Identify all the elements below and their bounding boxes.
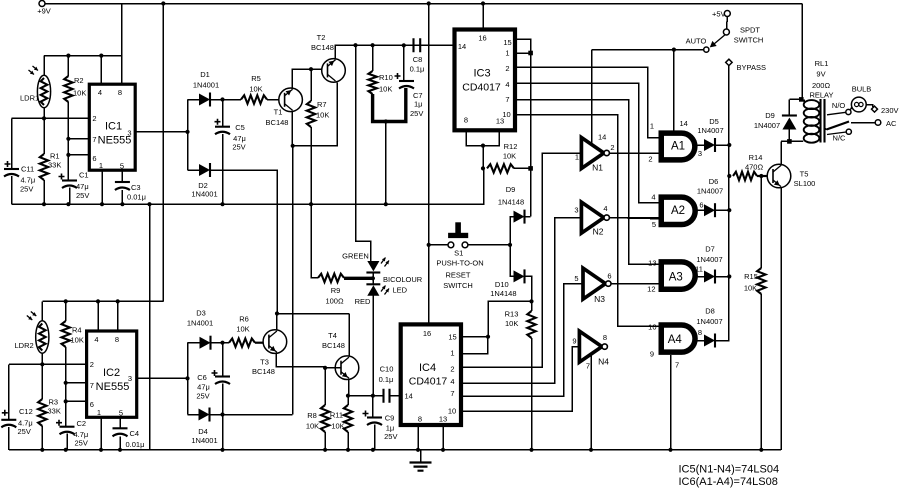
node junction A4 pin7/rail: [668, 448, 672, 452]
wire junction top rail x=163: [161, 1, 165, 5]
svg-text:7: 7: [586, 362, 590, 371]
transistor T3 BC148: [263, 330, 287, 354]
wire column x=163 from top rail: [162, 4, 164, 302]
diode D7 1N4007: [704, 271, 715, 283]
svg-text:C8: C8: [413, 55, 423, 64]
svg-text:A4: A4: [668, 334, 683, 346]
node +5V terminal: [724, 11, 730, 17]
resistor R2 10K: [64, 76, 72, 102]
wire bottom ground rail: [9, 449, 781, 451]
wire C3 bottom lead: [121, 190, 123, 204]
svg-text:R2: R2: [74, 76, 84, 85]
svg-text:2: 2: [610, 143, 614, 152]
wire diode column D1-D2: [187, 100, 189, 171]
wire T4 collector: [348, 314, 350, 357]
switch SPDT pivot: [726, 17, 729, 30]
svg-text:9: 9: [572, 337, 576, 346]
relay N/O contact: [846, 109, 851, 114]
wire junction feeder R2: [66, 54, 70, 58]
wire T2 collector: [335, 45, 456, 59]
svg-text:T4: T4: [328, 331, 337, 340]
node junction pin13/rail: [441, 448, 445, 452]
svg-text:4: 4: [94, 335, 98, 344]
svg-text:2: 2: [648, 155, 652, 164]
capacitor C7 1u: [399, 80, 414, 82]
svg-text:C3: C3: [131, 183, 141, 192]
node junction T3/T4 collectors: [275, 311, 279, 315]
svg-text:CD4017: CD4017: [462, 82, 501, 94]
node junction R2/pin7: [66, 137, 70, 141]
wire IC2 pin6 wire: [66, 400, 87, 402]
wire R11 bottom lead: [347, 432, 349, 450]
wire emitter join: [293, 83, 337, 146]
svg-text:C10: C10: [380, 365, 394, 374]
diode D9 1N4148: [514, 211, 525, 223]
wire N2 output: [610, 217, 659, 219]
wire IC3 pin4 to A2: [515, 83, 659, 203]
node BYPASS terminal: [726, 59, 732, 65]
wire D10 anode route: [510, 245, 514, 277]
svg-text:16: 16: [423, 329, 431, 338]
wire D10 cathode route: [525, 276, 532, 301]
svg-text:25V: 25V: [196, 392, 209, 401]
node AC terminal: [851, 122, 875, 124]
resistor R4 10K: [62, 321, 70, 347]
node junction bracket: [384, 119, 388, 123]
wire C10 to IC4 pin14: [390, 395, 401, 397]
node +9V supply terminal: [39, 1, 45, 7]
svg-text:7: 7: [505, 95, 509, 104]
svg-text:R1: R1: [50, 152, 60, 161]
diode D3 1N4001: [200, 337, 211, 349]
svg-text:C6: C6: [197, 373, 207, 382]
node junction pin15/pin1: [528, 51, 533, 56]
transistor T2 BC148: [322, 59, 346, 83]
svg-text:IC5(N1-N4)=74LS04: IC5(N1-N4)=74LS04: [679, 464, 780, 476]
wire A4 output: [698, 340, 705, 342]
svg-text:10K: 10K: [236, 325, 249, 334]
svg-text:5: 5: [119, 409, 123, 418]
svg-text:10K: 10K: [505, 319, 518, 328]
svg-text:A2: A2: [671, 205, 685, 217]
IC2 pin8 lead: [117, 301, 119, 331]
wire R2 bottom to pin7: [67, 102, 69, 139]
svg-text:3: 3: [698, 149, 702, 158]
node junction N4 pin7/rail: [589, 448, 593, 452]
svg-text:5: 5: [120, 162, 124, 171]
svg-text:D9: D9: [765, 111, 775, 120]
svg-text:4: 4: [98, 88, 102, 97]
wire IC4 pin2 to N1: [461, 153, 581, 367]
wire R8 top lead: [324, 368, 326, 405]
wire D6 cathode: [715, 209, 729, 211]
svg-text:10K: 10K: [744, 284, 757, 293]
capacitor C2 4.7u: [60, 426, 75, 428]
wire junction feeder pin4: [99, 54, 103, 58]
diode D10 1N4148: [514, 270, 525, 282]
node junction pin1b/rail: [99, 448, 103, 452]
svg-text:6: 6: [90, 400, 94, 409]
node junction pin8/rail: [416, 448, 420, 452]
wire diode column D3-D4: [187, 343, 189, 415]
svg-text:200Ω: 200Ω: [812, 81, 831, 90]
AND gate A1 74LS08: [659, 133, 695, 160]
wire R2 col pin7 to pin6: [67, 139, 69, 155]
capacitor C11 4.7u: [4, 168, 19, 170]
svg-text:D1: D1: [200, 70, 210, 79]
wire IC4 pin10 to N4: [461, 347, 579, 411]
svg-text:AUTO: AUTO: [686, 37, 707, 46]
svg-text:47μ: 47μ: [76, 182, 89, 191]
wire R6 to T3 base: [255, 342, 269, 344]
wire IC3 pin10 to A4: [515, 115, 659, 327]
svg-text:10K: 10K: [379, 85, 392, 94]
svg-text:0.01μ: 0.01μ: [126, 440, 145, 449]
LDR LDR2: [36, 321, 49, 354]
wire green LED column: [356, 45, 371, 261]
wire R7 bottom lead: [310, 127, 312, 204]
wire IC2 pin2 wire: [9, 363, 87, 365]
svg-text:25V: 25V: [384, 432, 397, 441]
capacitor C9 1u: [367, 416, 382, 418]
wire C12 top lead: [8, 364, 10, 420]
node junction relay top: [799, 97, 804, 102]
node junction LDR1/R1/pin2: [42, 116, 46, 120]
svg-text:+9V: +9V: [37, 7, 51, 16]
wire upper ground rail: [12, 168, 484, 204]
svg-text:25V: 25V: [20, 185, 33, 194]
node junction R12/reset column: [528, 166, 533, 171]
svg-text:C5: C5: [235, 123, 245, 132]
svg-text:10K: 10K: [316, 111, 329, 120]
node junction rail/R10: [371, 43, 375, 47]
wire C6 bottom lead: [222, 384, 224, 450]
resistor R3 33K: [38, 399, 46, 426]
wire C6 top lead: [222, 343, 224, 377]
wire IC3 pin1 route: [515, 52, 531, 54]
diode D5 1N4007: [704, 139, 715, 151]
svg-text:T2: T2: [317, 33, 326, 42]
diode D6 1N4007: [704, 204, 715, 216]
node junction C3/ground: [120, 202, 124, 206]
svg-text:15: 15: [503, 38, 511, 47]
wire bracket to ground rail: [385, 122, 387, 205]
node junction T4 emitter: [346, 394, 350, 398]
svg-text:13: 13: [496, 117, 504, 126]
svg-text:T3: T3: [260, 358, 269, 367]
capacitor C6 47u: [215, 375, 230, 377]
bulb lamp: [851, 97, 866, 112]
node junction rail x=149.5: [147, 202, 151, 206]
svg-text:SPDT: SPDT: [740, 26, 760, 35]
svg-text:C12: C12: [19, 407, 33, 416]
svg-text:+5V: +5V: [712, 10, 726, 19]
svg-text:RED: RED: [355, 297, 371, 306]
wire relay feed: [801, 4, 803, 100]
capacitor C5 47u col: [222, 100, 224, 127]
wire C4 bottom lead: [119, 436, 121, 450]
wire IC4 pin4 to N2: [461, 218, 581, 384]
transistor T4 BC148: [335, 356, 359, 380]
capacitor C4 0.01u: [113, 427, 128, 429]
node junction feeder R4: [64, 299, 68, 303]
wire N1 pin14 lead: [591, 50, 593, 146]
wire C11 bottom lead: [11, 176, 13, 204]
wire S1 left lead: [429, 244, 448, 246]
wire R5 to T1 base: [267, 99, 285, 101]
svg-text:8: 8: [603, 333, 607, 342]
LDR LDR1: [37, 75, 50, 108]
wire R13 bottom lead: [531, 338, 533, 450]
svg-text:D4: D4: [198, 427, 208, 436]
svg-text:4.7μ: 4.7μ: [21, 176, 36, 185]
wire R1 bottom lead: [43, 180, 45, 204]
wire column x=149.5 down: [149, 204, 151, 450]
svg-text:C9: C9: [385, 414, 395, 423]
svg-text:N3: N3: [594, 294, 605, 304]
svg-text:C2: C2: [77, 419, 87, 428]
svg-text:9: 9: [650, 350, 654, 359]
resistor R5 10K: [241, 95, 267, 103]
node junction D6/bypass: [727, 208, 731, 212]
svg-text:IC4: IC4: [419, 362, 436, 374]
svg-text:NE555: NE555: [98, 135, 132, 147]
node junction R13/rail: [529, 448, 533, 452]
svg-text:BC148: BC148: [252, 367, 275, 376]
wire T5 emitter to rail: [780, 187, 782, 450]
diode D2 1N4001: [199, 164, 210, 176]
wire bulb to 230V: [866, 105, 873, 108]
svg-text:D9: D9: [506, 185, 516, 194]
svg-text:10K: 10K: [71, 336, 84, 345]
wire reset column upper: [530, 53, 532, 217]
wire D2 anode lead: [188, 169, 200, 171]
svg-text:GREEN: GREEN: [342, 252, 369, 261]
svg-text:C4: C4: [130, 429, 140, 438]
node junction R3/rail: [40, 448, 44, 452]
resistor R9 100: [318, 274, 344, 282]
wire R4 top lead: [65, 301, 67, 321]
svg-text:16: 16: [478, 34, 486, 43]
wire R1 top lead: [43, 118, 45, 154]
wire A4 pin7 ground lead: [670, 355, 672, 450]
switch S1 push-to-on: [448, 242, 454, 248]
resistor R7 10K: [310, 69, 312, 101]
wire T1 emitter lead: [291, 111, 293, 146]
relay pole arm: [827, 122, 850, 130]
svg-text:8: 8: [115, 335, 119, 344]
wire N/O to bulb: [850, 107, 853, 111]
wire R9 feed: [311, 204, 318, 278]
wire C9 top lead: [372, 396, 374, 418]
wire +9V column x=429: [428, 4, 430, 325]
node junction R12 left: [481, 166, 485, 170]
svg-text:2: 2: [92, 114, 96, 123]
node junction pin3b: [185, 376, 189, 380]
svg-text:230V: 230V: [881, 106, 899, 115]
svg-text:4: 4: [450, 377, 454, 386]
svg-text:N4: N4: [598, 357, 609, 367]
resistor R15 10K: [757, 268, 765, 294]
svg-text:0.01μ: 0.01μ: [127, 193, 146, 202]
wire R2 top lead: [67, 56, 69, 76]
wire N3 output: [611, 283, 658, 285]
diode D8 1N4007: [704, 335, 715, 347]
wire R4 bottom lead: [65, 347, 67, 383]
IC1 pin5 lead: [121, 170, 123, 182]
resistor R1 33K: [40, 154, 48, 180]
wire D8 cathode to bypass column: [715, 340, 729, 342]
diode D4 1N4001: [199, 409, 210, 421]
resistor R6 10K: [229, 339, 255, 347]
svg-text:13: 13: [439, 415, 447, 424]
wire R15 top lead: [760, 176, 762, 268]
wire IC4 pin15 lead: [461, 336, 488, 338]
wire IC1 pin6 wire: [68, 154, 89, 156]
svg-text:25V: 25V: [18, 427, 31, 436]
svg-text:5: 5: [652, 220, 656, 229]
wire A1 output: [698, 144, 705, 146]
wire D9 anode route: [510, 217, 514, 245]
wire D7 cathode: [715, 276, 729, 278]
relay N/C contact: [846, 129, 851, 134]
node junction C7/C8: [402, 43, 406, 47]
wire +9V drop to IC1 feeder: [121, 4, 123, 56]
svg-text:8: 8: [118, 88, 122, 97]
wire N4 pin7 ground lead: [590, 355, 592, 450]
wire IC1 pin2 wire: [12, 117, 90, 119]
svg-text:R7: R7: [317, 100, 327, 109]
svg-text:7: 7: [450, 389, 454, 398]
node junction pin1/ground: [100, 202, 104, 206]
svg-text:1: 1: [97, 408, 101, 417]
svg-text:100Ω: 100Ω: [325, 297, 344, 306]
node 230V terminal: [872, 106, 878, 112]
node junction IC4 pin15/1: [486, 335, 490, 339]
node junction C9/rail: [371, 448, 375, 452]
svg-text:8: 8: [418, 415, 422, 424]
svg-text:N/O: N/O: [832, 101, 846, 110]
wire +5V rail: [592, 49, 704, 51]
svg-text:7: 7: [90, 381, 94, 390]
svg-text:SWITCH: SWITCH: [734, 36, 764, 45]
svg-text:13: 13: [648, 259, 656, 268]
svg-text:25V: 25V: [232, 143, 245, 152]
svg-text:2: 2: [90, 360, 94, 369]
wire R8 bottom lead: [324, 432, 326, 450]
switch S1 left junction: [427, 243, 431, 247]
node junction R14/R15: [759, 174, 763, 178]
svg-text:NE555: NE555: [96, 381, 130, 393]
svg-text:3: 3: [574, 206, 578, 215]
wire IC2 pin7 wire: [66, 382, 87, 384]
node junction C2/rail: [64, 448, 68, 452]
svg-text:1μ: 1μ: [414, 100, 423, 109]
node junction C4/rail: [118, 448, 122, 452]
wire IC4 pin7 to N3: [461, 284, 583, 397]
svg-text:25V: 25V: [76, 191, 89, 200]
node junction D7/bypass: [727, 274, 731, 278]
svg-text:D8: D8: [705, 307, 715, 316]
resistor R11 10K: [344, 405, 352, 432]
svg-text:6: 6: [607, 272, 611, 281]
svg-text:1: 1: [99, 161, 103, 170]
wire lower supply feeder: [42, 300, 163, 302]
svg-text:14: 14: [598, 133, 606, 142]
transistor T5 SL100: [767, 164, 791, 188]
svg-text:BC148: BC148: [322, 341, 345, 350]
wire C1 bottom lead: [69, 188, 71, 205]
svg-text:5: 5: [574, 274, 578, 283]
svg-text:BULB: BULB: [852, 85, 872, 94]
svg-text:4: 4: [603, 204, 607, 213]
LED red: [366, 283, 380, 285]
svg-text:A1: A1: [671, 141, 685, 153]
node junction feeder pin8b: [116, 299, 120, 303]
svg-text:D7: D7: [705, 245, 715, 254]
svg-text:PUSH-TO-ON: PUSH-TO-ON: [436, 259, 483, 268]
svg-text:0.1μ: 0.1μ: [379, 375, 394, 384]
svg-text:D10: D10: [495, 280, 509, 289]
node junction D1/C5/R5: [220, 97, 224, 101]
svg-text:SWITCH: SWITCH: [443, 281, 473, 290]
svg-text:D5: D5: [709, 117, 719, 126]
wire IC4 pin8 lead: [417, 425, 419, 450]
svg-text:4: 4: [505, 80, 509, 89]
node junction S1/D9-D10: [508, 243, 512, 247]
wire A2 pin5 input: [610, 218, 659, 219]
wire IC3 pin7 to A3: [515, 100, 659, 265]
svg-text:10: 10: [448, 407, 456, 416]
wire D2 cathode to T3/T4 collectors: [210, 170, 277, 314]
svg-text:33K: 33K: [48, 161, 61, 170]
wire C12 bottom lead: [8, 427, 10, 450]
capacitor C3 0.01u: [115, 181, 130, 183]
wire C7 top lead: [403, 46, 405, 81]
svg-text:4: 4: [651, 193, 655, 202]
resistor R14 470: [733, 172, 757, 180]
svg-text:1N4007: 1N4007: [696, 255, 722, 264]
svg-text:IC3: IC3: [473, 68, 490, 80]
svg-text:R5: R5: [251, 74, 261, 83]
svg-text:R8: R8: [307, 411, 317, 420]
svg-text:10K: 10K: [503, 152, 516, 161]
wire D9 cathode: [525, 216, 531, 218]
svg-text:RL1: RL1: [815, 59, 829, 68]
diode D9 1N4007 relay: [788, 99, 790, 116]
svg-text:LDR1: LDR1: [20, 94, 39, 103]
wire N1 output: [610, 152, 659, 154]
svg-text:R14: R14: [749, 153, 763, 162]
wire bypass column: [728, 65, 730, 340]
node junction R1/ground rail: [42, 202, 46, 206]
svg-text:IC2: IC2: [103, 367, 120, 379]
svg-text:A3: A3: [669, 272, 683, 284]
wire LDR1 to junction: [43, 107, 45, 118]
AND gate A2 74LS08: [659, 197, 696, 224]
svg-text:RESET: RESET: [445, 271, 470, 280]
wire IC1 pin7 wire: [68, 138, 89, 140]
wire R4 col to pin6: [65, 383, 67, 402]
node junction R11/rail: [346, 448, 350, 452]
wire D1 cathode lead: [210, 99, 241, 101]
IC2 pin4 lead: [97, 301, 99, 331]
svg-text:14: 14: [405, 392, 413, 401]
svg-text:1: 1: [575, 153, 579, 162]
node junction C1/ground rail: [66, 202, 70, 206]
wire C5 bottom lead: [222, 134, 224, 204]
wire C2 bottom lead: [66, 434, 68, 450]
